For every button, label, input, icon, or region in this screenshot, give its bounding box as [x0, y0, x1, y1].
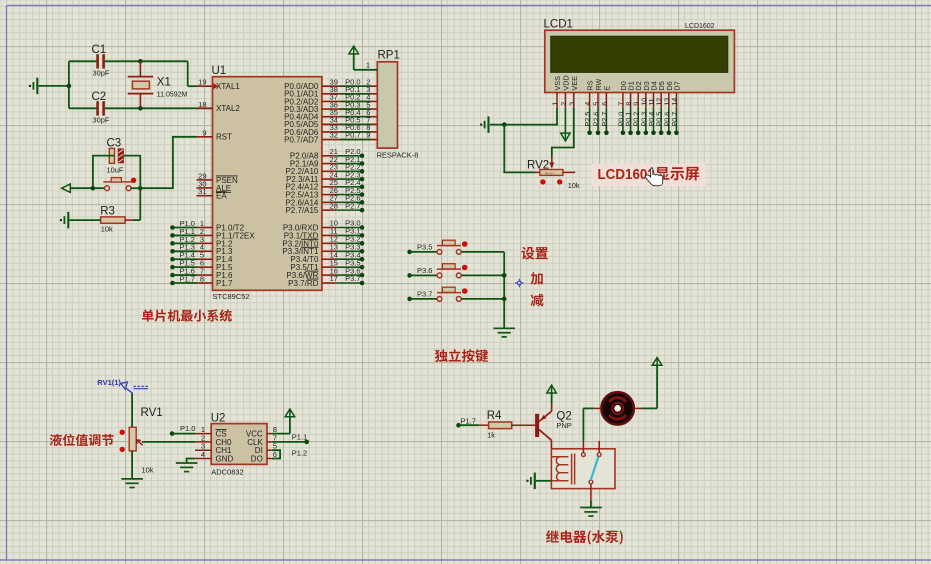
LCD caption — [592, 164, 707, 186]
power terminal (RP1) — [349, 46, 377, 70]
svg-text:1: 1 — [366, 61, 370, 70]
input terminal arrow — [62, 184, 105, 192]
caption keys — [521, 247, 547, 307]
svg-text:30pF: 30pF — [93, 116, 110, 125]
wire — [131, 393, 133, 428]
motor (pump) — [601, 392, 633, 424]
node P1.7 — [456, 416, 476, 427]
wire RST — [140, 137, 196, 188]
push-button P3.6 — [437, 264, 468, 278]
wire — [69, 107, 97, 109]
node P3.6 — [407, 266, 432, 278]
wire — [461, 274, 504, 276]
MCU caption — [142, 309, 232, 321]
wire — [410, 298, 438, 300]
caption independent keys — [435, 349, 488, 362]
svg-text:P0.7: P0.7 — [670, 112, 679, 127]
svg-text:R4: R4 — [487, 410, 502, 422]
wire — [68, 61, 70, 108]
svg-text:GND: GND — [216, 454, 234, 463]
svg-text:P3.5: P3.5 — [417, 242, 432, 251]
svg-text:PNP: PNP — [556, 421, 571, 430]
wire GND to ground — [187, 459, 195, 464]
mouse cursor — [646, 168, 663, 186]
wire collector — [550, 440, 552, 449]
wire bus — [503, 252, 505, 328]
resistor R3 — [100, 206, 140, 234]
wire motor right — [634, 369, 657, 409]
svg-text:RESPACK-8: RESPACK-8 — [377, 151, 419, 160]
svg-text:STC89C52: STC89C52 — [213, 292, 250, 301]
svg-text:9: 9 — [366, 131, 370, 140]
svg-text:P1.7: P1.7 — [461, 416, 476, 425]
svg-text:4: 4 — [201, 450, 205, 459]
svg-text:14: 14 — [670, 98, 679, 106]
wire — [105, 107, 213, 109]
svg-text:19: 19 — [198, 78, 206, 87]
U1 P2 pins with net labels — [285, 147, 364, 215]
U1 left pins XTAL1 XTAL2 RST PSEN ALE EA — [197, 78, 241, 201]
wire motor left — [583, 408, 601, 441]
U1 P3 pins with net labels — [282, 219, 364, 288]
node P1.0 — [170, 424, 196, 436]
svg-text:XTAL1: XTAL1 — [216, 82, 240, 91]
power terminal (U2 VCC) — [272, 409, 295, 434]
svg-text:10uF: 10uF — [107, 166, 124, 175]
voltage probe RV1(1) — [97, 378, 148, 393]
wire VEE to RV2 wiper — [552, 108, 574, 157]
power terminal (Q2 emitter) — [547, 385, 557, 411]
LCD pins and net labels — [551, 75, 682, 135]
node junction — [138, 59, 143, 64]
svg-text:P1.1: P1.1 — [292, 432, 307, 441]
svg-text:P1.0: P1.0 — [180, 424, 195, 433]
resistor R4 — [479, 410, 535, 440]
node P1.1 — [272, 432, 309, 444]
ground terminal (R3) — [60, 212, 101, 229]
svg-text:30pF: 30pF — [93, 69, 110, 78]
svg-text:RV1(1): RV1(1) — [97, 378, 121, 387]
push-button P3.5 — [437, 240, 468, 254]
power terminal (motor) — [652, 358, 662, 369]
relay contacts — [582, 441, 602, 501]
svg-text:VEE: VEE — [570, 76, 579, 91]
capacitor C1 — [92, 44, 110, 78]
svg-text:10k: 10k — [568, 181, 580, 190]
wire — [131, 187, 140, 189]
svg-text:17: 17 — [330, 274, 338, 283]
svg-text:C2: C2 — [92, 91, 107, 103]
svg-text:RP1: RP1 — [378, 50, 400, 62]
svg-text:ADC0832: ADC0832 — [211, 468, 244, 477]
ground terminal (osc) — [29, 78, 69, 95]
ground (relay) — [580, 508, 602, 517]
U1 P1 pins with net labels — [170, 219, 255, 288]
ground terminal (LCD) — [480, 116, 488, 133]
svg-text:RV2: RV2 — [527, 160, 549, 172]
svg-text:10k: 10k — [142, 466, 154, 475]
wire DI-DO link — [272, 449, 307, 459]
svg-text:P3.7: P3.7 — [345, 274, 360, 283]
svg-text:%>1>: %>1> — [545, 171, 555, 176]
wire — [461, 251, 504, 253]
ground (U2) — [176, 463, 198, 472]
svg-text:P0.7: P0.7 — [345, 131, 360, 140]
svg-text:R3: R3 — [100, 206, 115, 218]
svg-text:XTAL2: XTAL2 — [216, 104, 240, 113]
svg-text:P2.7/A15: P2.7/A15 — [285, 206, 318, 215]
wire — [93, 156, 115, 189]
capacitor C2 — [92, 91, 110, 125]
svg-text:RV1: RV1 — [141, 407, 163, 419]
svg-text:E: E — [602, 86, 611, 91]
svg-text:P1.7: P1.7 — [180, 274, 195, 283]
wire VSS to ground — [490, 108, 557, 125]
svg-text:P0.7/AD7: P0.7/AD7 — [284, 135, 319, 144]
node junction — [502, 297, 507, 302]
relay RL1 body — [551, 449, 615, 489]
potentiometer RV1 — [120, 407, 163, 475]
crystal X1 — [128, 61, 188, 108]
svg-text:P2.7: P2.7 — [345, 201, 360, 210]
U1 P0 bus to RP1 — [284, 77, 377, 144]
svg-text:8: 8 — [200, 274, 204, 283]
capacitor C3 — [107, 138, 124, 175]
wire to RV2 — [504, 125, 535, 173]
wire — [172, 433, 195, 435]
relay switch blade — [591, 457, 599, 481]
svg-text:P3.7: P3.7 — [417, 289, 432, 298]
svg-text:C1: C1 — [92, 44, 107, 56]
svg-text:18: 18 — [198, 100, 206, 109]
svg-text:LCD1602: LCD1602 — [685, 23, 715, 30]
LCD LCD1 body — [544, 19, 735, 93]
svg-text:X1: X1 — [157, 77, 171, 89]
svg-text:28: 28 — [330, 201, 338, 210]
svg-text:11.0592M: 11.0592M — [157, 92, 188, 99]
node junction — [138, 106, 143, 111]
svg-text:U2: U2 — [211, 413, 226, 425]
wire — [410, 251, 438, 253]
svg-text:C3: C3 — [107, 138, 122, 150]
svg-text:DO: DO — [251, 454, 263, 463]
svg-text:LCD1: LCD1 — [544, 19, 573, 31]
svg-text:1k: 1k — [487, 431, 495, 440]
potentiometer RV2 — [527, 157, 580, 190]
node junction — [67, 84, 72, 89]
wire — [139, 188, 141, 220]
svg-text:U1: U1 — [212, 65, 227, 77]
wire — [131, 451, 133, 479]
LCD screen — [551, 36, 728, 72]
wire — [410, 274, 438, 276]
relay coil — [551, 454, 574, 485]
caption relay pump — [546, 530, 623, 544]
svg-text:P1.7: P1.7 — [216, 279, 233, 288]
svg-text:P3.7/RD: P3.7/RD — [288, 279, 318, 288]
svg-text:RST: RST — [216, 133, 232, 142]
node junction — [91, 186, 96, 191]
node P3.5 — [407, 242, 432, 254]
push-button RESET — [103, 178, 136, 191]
ground terminal (relay coil) — [526, 473, 551, 490]
push-button P3.7 — [437, 287, 468, 301]
resistor pack RP1 — [377, 50, 419, 160]
wire — [105, 60, 140, 62]
svg-text:31: 31 — [198, 187, 206, 196]
svg-text:9: 9 — [202, 128, 206, 137]
wire wiper to CH0 — [142, 441, 195, 443]
wire — [69, 60, 97, 62]
svg-text:P2.7: P2.7 — [600, 112, 609, 127]
ground (RV1) — [121, 479, 143, 488]
svg-text:10k: 10k — [101, 225, 113, 234]
MCU U1 body — [212, 65, 322, 301]
transistor Q2 — [535, 411, 572, 441]
node junction — [138, 186, 143, 191]
svg-text:D7: D7 — [672, 81, 681, 90]
power terminal (VDD) — [561, 108, 570, 141]
node P3.7 — [407, 289, 432, 301]
svg-text:32: 32 — [330, 131, 338, 140]
wire — [461, 298, 504, 300]
wire — [459, 424, 480, 426]
U2 pins — [195, 425, 277, 463]
svg-text:P3.6: P3.6 — [417, 266, 432, 275]
svg-text:EA: EA — [216, 192, 227, 201]
wire — [590, 501, 592, 508]
caption level set — [50, 434, 114, 446]
wire — [140, 61, 196, 86]
svg-text:6: 6 — [600, 102, 609, 106]
svg-text:P1.2: P1.2 — [292, 449, 307, 458]
wire — [124, 156, 140, 189]
ground (buttons) — [493, 328, 515, 337]
origin marker — [515, 279, 524, 287]
svg-text:3: 3 — [567, 102, 576, 106]
ADC U2 body — [211, 413, 267, 477]
node junction — [502, 273, 507, 278]
node junction — [502, 122, 507, 127]
